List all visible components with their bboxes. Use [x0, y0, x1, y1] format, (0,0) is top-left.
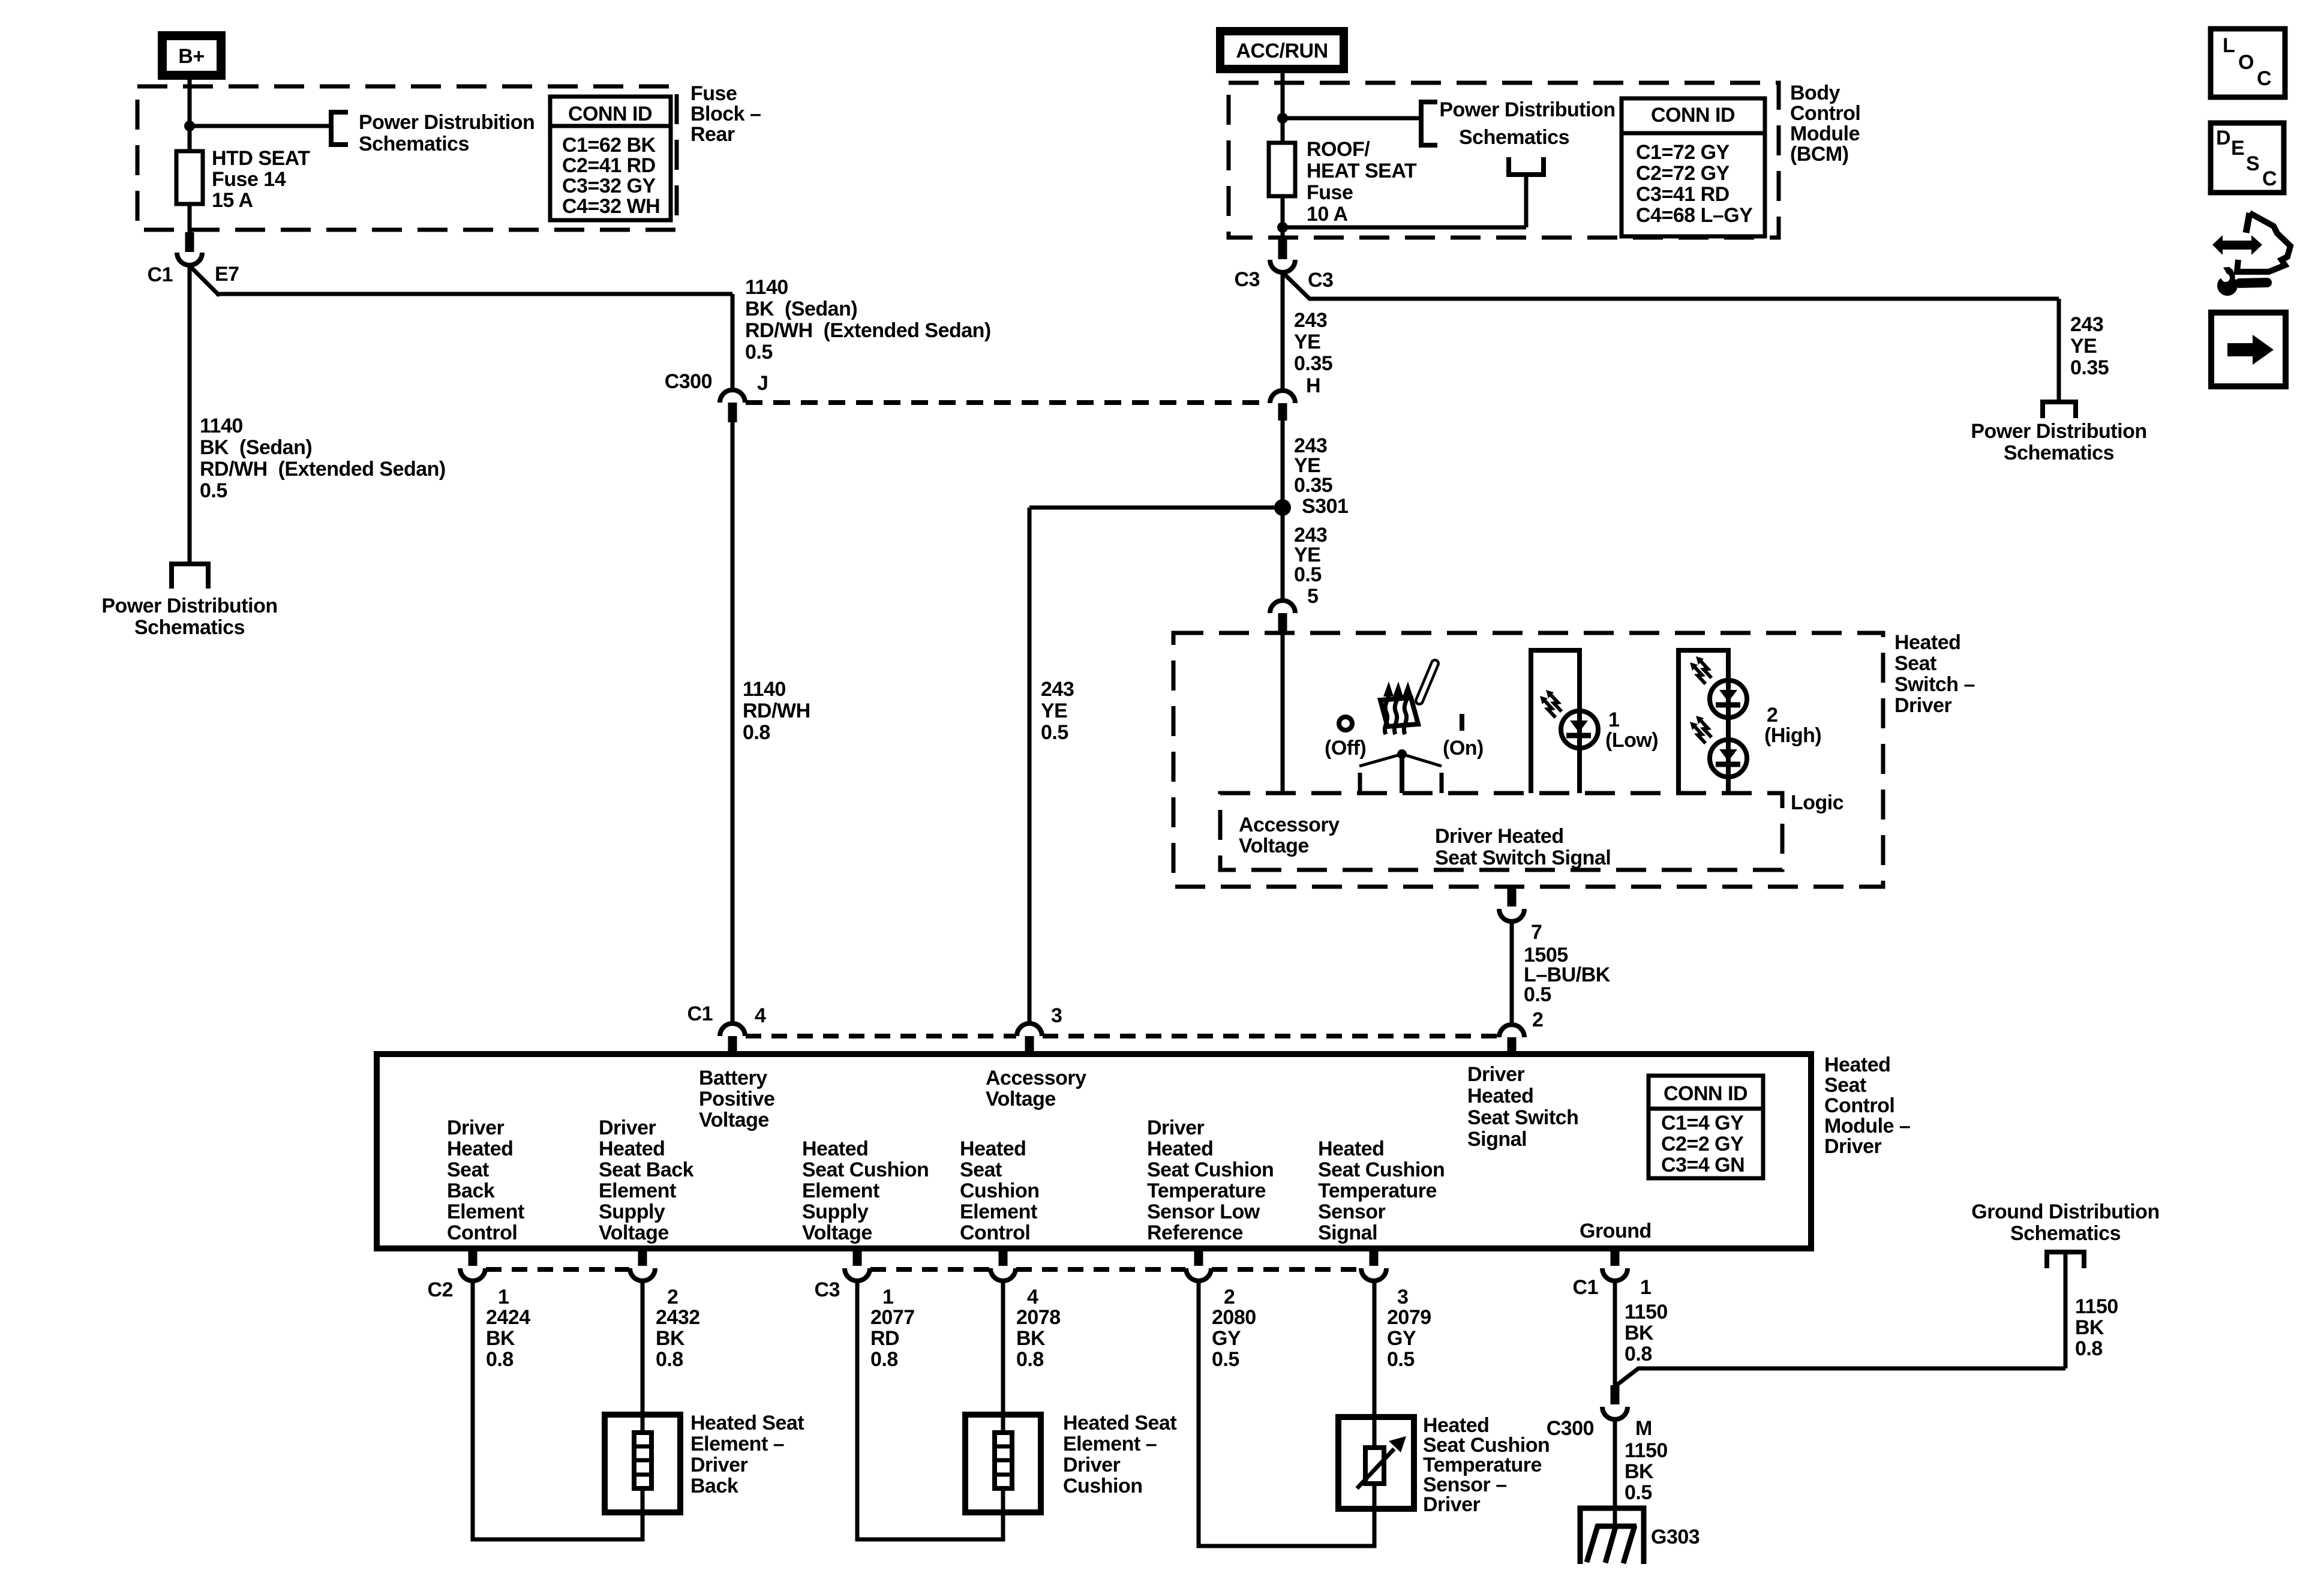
LED 1 loop box [1531, 650, 1580, 793]
svg-text:(Off): (Off) [1325, 737, 1366, 760]
svg-text:Seat Switch Signal: Seat Switch Signal [1435, 846, 1611, 869]
svg-text:C4=32 WH: C4=32 WH [562, 195, 660, 218]
svg-text:Power Distrubition: Power Distrubition [359, 111, 535, 134]
svg-text:0.8: 0.8 [486, 1348, 514, 1371]
heated seat control module box [377, 1054, 1811, 1248]
svg-text:Seat: Seat [960, 1158, 1002, 1181]
svg-text:Seat Switch: Seat Switch [1467, 1106, 1578, 1129]
svg-text:0.5: 0.5 [1041, 721, 1068, 744]
svg-text:2: 2 [1532, 1008, 1543, 1031]
svg-text:BK: BK [2075, 1316, 2104, 1339]
svg-text:1140: 1140 [743, 678, 786, 701]
svg-text:YE: YE [1041, 700, 1067, 722]
svg-text:Element: Element [802, 1179, 879, 1202]
svg-text:Body: Body [1790, 82, 1840, 104]
svg-text:2424: 2424 [486, 1306, 530, 1329]
wire circuit 1140 down to power distribution [188, 266, 192, 564]
svg-text:4: 4 [755, 1004, 766, 1027]
schematic navigation icon (arrow + wrench) [2212, 235, 2262, 255]
dashed link module top pins [746, 1034, 1016, 1038]
dashed connector link C300 J to BCM H [746, 400, 1269, 405]
svg-text:2079: 2079 [1387, 1306, 1431, 1329]
svg-text:Reference: Reference [1147, 1221, 1243, 1244]
svg-text:Driver: Driver [599, 1116, 656, 1139]
svg-text:C3=32 GY: C3=32 GY [562, 175, 656, 197]
svg-text:BK (Sedan): BK (Sedan) [200, 436, 312, 459]
svg-text:Positive: Positive [699, 1088, 774, 1110]
svg-text:1140: 1140 [745, 276, 788, 299]
svg-text:5: 5 [1307, 585, 1318, 608]
svg-text:2: 2 [1767, 704, 1777, 727]
svg-text:G303: G303 [1651, 1526, 1700, 1548]
connector module C1 pin 4 [720, 1023, 745, 1036]
svg-text:GY: GY [1212, 1327, 1241, 1350]
svg-text:HTD SEAT: HTD SEAT [212, 147, 310, 170]
svg-text:Seat Cushion: Seat Cushion [1147, 1158, 1274, 1181]
LED 2 emission arrows lower [1696, 716, 1704, 724]
svg-text:Driver Heated: Driver Heated [1435, 825, 1564, 848]
svg-text:Fuse: Fuse [1307, 181, 1353, 204]
svg-text:CONN ID: CONN ID [568, 103, 652, 125]
wire 243 YE from C3 to H [1281, 272, 1285, 392]
wire 243 YE S301 to switch pin 5 [1281, 514, 1285, 600]
svg-text:Element: Element [447, 1200, 524, 1223]
connector module bottom pin x=1429 [853, 1248, 862, 1266]
svg-text:Voltage: Voltage [802, 1221, 872, 1244]
svg-text:YE: YE [2070, 335, 2097, 358]
svg-text:C4=68 L–GY: C4=68 L–GY [1636, 204, 1753, 227]
svg-text:(On): (On) [1443, 737, 1484, 760]
svg-text:2077: 2077 [870, 1306, 915, 1329]
svg-text:C2=41 RD: C2=41 RD [562, 154, 656, 177]
svg-text:3: 3 [1051, 1004, 1062, 1027]
svg-text:Driver: Driver [447, 1116, 505, 1139]
LED 2 loop box [1679, 650, 1728, 793]
svg-text:Module: Module [1790, 122, 1860, 145]
svg-text:2080: 2080 [1212, 1306, 1256, 1329]
svg-text:2: 2 [667, 1286, 678, 1308]
svg-text:S301: S301 [1302, 495, 1348, 518]
svg-text:Seat Back: Seat Back [599, 1158, 694, 1181]
connector module bottom pin x=1672 [999, 1248, 1008, 1266]
svg-text:C2=72 GY: C2=72 GY [1636, 162, 1730, 185]
wire to power distribution bracket (BCM) [1283, 116, 1421, 121]
node junction on B+ feed [184, 121, 195, 131]
off-page bracket power distribution (fuse block) [331, 112, 348, 145]
svg-text:Element –: Element – [1063, 1433, 1157, 1455]
svg-text:Heated: Heated [802, 1137, 868, 1160]
svg-text:Heated Seat: Heated Seat [1063, 1412, 1176, 1434]
wire B+ to fuse 14 [188, 80, 192, 151]
svg-text:Driver: Driver [1063, 1454, 1121, 1476]
off-page bracket (bottom left) [172, 564, 208, 589]
svg-text:Heated: Heated [1894, 631, 1960, 654]
wire loop cushion element [857, 1280, 1003, 1539]
heated seat element driver back box [605, 1415, 680, 1512]
wire loop back element [473, 1280, 642, 1539]
connector module bottom pin x=1071 [638, 1248, 647, 1266]
svg-text:Seat Cushion: Seat Cushion [802, 1158, 929, 1181]
svg-text:ROOF/: ROOF/ [1307, 138, 1370, 161]
dashed link C3 pins [870, 1267, 990, 1272]
svg-text:Logic: Logic [1791, 791, 1843, 814]
thermistor symbol [1365, 1448, 1384, 1484]
connector module pin 2 [1499, 1025, 1524, 1037]
svg-text:Supply: Supply [599, 1200, 665, 1223]
svg-text:Back: Back [447, 1179, 495, 1202]
svg-text:Driver: Driver [1467, 1063, 1525, 1086]
svg-text:Switch –: Switch – [1894, 673, 1975, 696]
svg-text:1150: 1150 [2075, 1295, 2118, 1318]
connector switch pin 5 [1270, 601, 1295, 613]
svg-text:0.5: 0.5 [200, 479, 227, 502]
svg-text:0.35: 0.35 [1294, 352, 1332, 375]
wrench [2239, 283, 2267, 283]
svg-text:Temperature: Temperature [1318, 1179, 1437, 1202]
svg-text:Cushion: Cushion [960, 1179, 1039, 1202]
connector switch pin 7 [1508, 887, 1517, 906]
svg-text:Block –: Block – [690, 103, 761, 125]
svg-text:15 A: 15 A [212, 189, 253, 212]
svg-text:Heated: Heated [1147, 1137, 1213, 1160]
wire loop temperature sensor [1199, 1280, 1374, 1546]
svg-text:Power Distribution: Power Distribution [1971, 420, 2146, 443]
svg-text:C: C [2257, 67, 2271, 90]
svg-text:Voltage: Voltage [1239, 834, 1309, 857]
wire 243 YE to right power distribution [1283, 272, 1310, 299]
switch contact stubs [1358, 773, 1362, 793]
svg-text:Driver: Driver [1894, 694, 1952, 717]
svg-text:RD: RD [870, 1327, 899, 1350]
wire E7 to C300 J (circuit 1140) [190, 266, 218, 295]
heated seat switch driver dashed box [1173, 633, 1883, 887]
svg-text:CONN ID: CONN ID [1651, 104, 1735, 127]
heated seat cushion temperature sensor box [1338, 1417, 1414, 1509]
svg-text:Sensor: Sensor [1318, 1200, 1386, 1223]
svg-text:Heated: Heated [1824, 1053, 1890, 1076]
connector BCM cavity H [1270, 391, 1295, 403]
wire to power distribution bracket [190, 124, 331, 128]
svg-text:0.8: 0.8 [1625, 1343, 1652, 1365]
svg-text:Signal: Signal [1467, 1128, 1527, 1151]
svg-text:3: 3 [1397, 1286, 1408, 1308]
wire accessory voltage into logic [1281, 633, 1285, 793]
svg-text:1: 1 [498, 1286, 509, 1308]
svg-text:Schematics: Schematics [359, 133, 469, 155]
wire ground pin to junction [1613, 1280, 1617, 1386]
svg-text:C3: C3 [815, 1278, 840, 1301]
svg-text:Fuse 14: Fuse 14 [212, 168, 286, 191]
svg-text:0.5: 0.5 [1387, 1348, 1415, 1371]
svg-text:C3: C3 [1308, 269, 1333, 292]
return bracket from power distribution schematics [1509, 157, 1544, 175]
svg-text:Back: Back [690, 1475, 738, 1497]
svg-text:C3: C3 [1235, 268, 1260, 291]
svg-text:Schematics: Schematics [1459, 126, 1569, 149]
CONN ID table BCM [1622, 98, 1765, 236]
svg-text:GY: GY [1387, 1327, 1416, 1350]
LED 2 lower circle [1710, 740, 1747, 777]
connector C300 cavity J [720, 390, 745, 403]
svg-text:0.5: 0.5 [745, 341, 773, 364]
svg-text:Power Distribution: Power Distribution [101, 595, 277, 617]
BCM dashed box [1229, 83, 1779, 238]
svg-text:Cushion: Cushion [1063, 1475, 1142, 1497]
svg-text:RD/WH (Extended Sedan): RD/WH (Extended Sedan) [745, 319, 991, 342]
svg-text:E: E [2231, 137, 2244, 160]
svg-text:243: 243 [2070, 313, 2103, 336]
svg-text:L: L [2223, 34, 2235, 57]
svg-text:D: D [2216, 127, 2230, 149]
svg-text:10 A: 10 A [1307, 203, 1348, 226]
svg-text:Signal: Signal [1318, 1221, 1377, 1244]
svg-text:(Low): (Low) [1605, 729, 1658, 752]
svg-text:Seat Cushion: Seat Cushion [1318, 1158, 1445, 1181]
svg-text:0.5: 0.5 [1625, 1481, 1652, 1504]
svg-text:0.5: 0.5 [1294, 563, 1322, 586]
svg-text:E7: E7 [215, 263, 239, 286]
svg-text:C: C [2262, 167, 2277, 190]
svg-text:1150: 1150 [1625, 1301, 1668, 1323]
svg-text:Heated: Heated [960, 1137, 1026, 1160]
svg-text:Rear: Rear [690, 123, 735, 146]
node junction fuse output [1277, 222, 1288, 233]
svg-text:BK: BK [656, 1327, 685, 1350]
svg-text:BK: BK [1016, 1327, 1046, 1350]
svg-text:RD/WH: RD/WH [743, 700, 810, 722]
svg-text:HEAT SEAT: HEAT SEAT [1307, 160, 1417, 182]
svg-text:Heated: Heated [1467, 1085, 1533, 1107]
svg-text:Sensor Low: Sensor Low [1147, 1200, 1260, 1223]
wire branch S301 to module pin 3 [1029, 506, 1283, 510]
LED 1 circle [1561, 711, 1598, 748]
ground G303 [1580, 1508, 1644, 1564]
svg-text:Element: Element [599, 1179, 676, 1202]
svg-text:Driver: Driver [1423, 1493, 1481, 1516]
off-page bracket power distribution (BCM) [1421, 102, 1437, 145]
svg-text:Accessory: Accessory [986, 1067, 1086, 1089]
svg-text:Voltage: Voltage [986, 1088, 1056, 1110]
svg-text:4: 4 [1027, 1286, 1038, 1308]
svg-text:C300: C300 [665, 370, 712, 393]
svg-text:ACC/RUN: ACC/RUN [1236, 40, 1328, 62]
heated seat icon: seat back [1419, 664, 1435, 701]
heated seat element driver cushion box [965, 1415, 1041, 1512]
svg-text:Seat: Seat [1824, 1074, 1866, 1097]
svg-text:H: H [1306, 374, 1320, 397]
connector module bottom pin x=2290 [1370, 1248, 1379, 1266]
wire ACC/RUN to fuse [1281, 73, 1285, 143]
svg-text:Seat: Seat [447, 1158, 489, 1181]
svg-text:(BCM): (BCM) [1790, 143, 1849, 166]
svg-text:1: 1 [1640, 1276, 1651, 1299]
svg-text:1150: 1150 [1625, 1439, 1668, 1462]
svg-text:Element –: Element – [690, 1433, 784, 1455]
svg-text:(High): (High) [1764, 724, 1821, 747]
svg-text:Power Distribution: Power Distribution [1439, 98, 1615, 121]
svg-text:1: 1 [882, 1286, 893, 1308]
svg-text:0.35: 0.35 [1294, 474, 1332, 497]
svg-text:Schematics: Schematics [134, 616, 245, 639]
svg-text:Schematics: Schematics [2010, 1222, 2121, 1245]
svg-text:0.8: 0.8 [2075, 1337, 2103, 1360]
svg-text:Driver: Driver [1824, 1135, 1882, 1158]
svg-text:Heated: Heated [1318, 1137, 1384, 1160]
svg-text:C1=4 GY: C1=4 GY [1661, 1112, 1744, 1134]
svg-text:BK: BK [1625, 1322, 1654, 1344]
svg-text:C300: C300 [1547, 1417, 1594, 1440]
off-page bracket (right power distribution) [2043, 402, 2076, 418]
wire 1505 L-BU/BK to module pin 2 [1510, 921, 1514, 1025]
connector C3 (BCM output) [1278, 239, 1287, 259]
logic dashed box [1220, 793, 1782, 870]
ground distribution branch [1615, 1368, 1638, 1386]
switch pivot and wiper [1397, 749, 1407, 759]
heated seat icon: cushion [1380, 698, 1418, 727]
svg-text:Voltage: Voltage [599, 1221, 669, 1244]
arrow icon [2211, 313, 2286, 386]
svg-text:C3=41 RD: C3=41 RD [1636, 183, 1730, 206]
svg-text:Accessory: Accessory [1239, 813, 1340, 836]
svg-text:0.35: 0.35 [2070, 356, 2109, 379]
svg-text:C2: C2 [428, 1278, 453, 1301]
svg-text:0.5: 0.5 [1524, 983, 1551, 1006]
svg-text:Ground Distribution: Ground Distribution [1971, 1200, 2159, 1223]
node junction ACC feed [1277, 113, 1288, 124]
LED 2 upper circle [1710, 680, 1747, 718]
svg-text:0.8: 0.8 [1016, 1348, 1044, 1371]
svg-text:Voltage: Voltage [699, 1109, 769, 1131]
element symbol [634, 1433, 651, 1488]
svg-text:Ground: Ground [1580, 1220, 1652, 1242]
wire 1140 RD/WH to module pin C1-4 [731, 422, 735, 1025]
svg-text:0.5: 0.5 [1212, 1348, 1239, 1371]
svg-text:0.8: 0.8 [870, 1348, 898, 1371]
wire 243 YE H to S301 [1281, 421, 1285, 501]
svg-text:O: O [2238, 51, 2254, 74]
heated seat icon: heat wave arrows [1385, 695, 1388, 734]
svg-text:Schematics: Schematics [2004, 442, 2114, 464]
svg-text:Element: Element [960, 1200, 1037, 1223]
wire fuse 14 to connector C1 [188, 204, 192, 237]
svg-text:1140: 1140 [200, 415, 243, 437]
svg-text:C3=4 GN: C3=4 GN [1661, 1154, 1744, 1176]
svg-text:C2=2 GY: C2=2 GY [1661, 1133, 1744, 1155]
svg-text:B+: B+ [178, 45, 204, 68]
fuse ROOF/HEAT SEAT 10A [1269, 143, 1295, 196]
CONN ID table fuse block rear [550, 97, 671, 220]
connector module pin 3 [1017, 1023, 1042, 1036]
svg-text:Heated: Heated [599, 1137, 665, 1160]
fuse block dashed box [137, 86, 677, 230]
svg-text:C1=72 GY: C1=72 GY [1636, 141, 1730, 164]
dashed link C2 pins [486, 1267, 629, 1272]
svg-text:Temperature: Temperature [1147, 1179, 1266, 1202]
svg-text:Control: Control [447, 1221, 517, 1244]
LOC icon [2211, 29, 2285, 97]
svg-text:C1=62 BK: C1=62 BK [562, 134, 656, 157]
splice S301 [1274, 499, 1291, 516]
svg-text:Battery: Battery [699, 1067, 767, 1089]
svg-text:C1: C1 [687, 1002, 713, 1025]
LED 2 emission arrows upper [1696, 656, 1704, 665]
LED 1 emission arrows [1546, 690, 1554, 698]
connector module bottom pin x=2692 [1611, 1248, 1620, 1266]
svg-text:BK (Sedan): BK (Sedan) [745, 298, 857, 320]
wire fuse to box edge [1281, 196, 1285, 244]
power feed B+ box [158, 31, 226, 80]
svg-text:M: M [1635, 1417, 1652, 1440]
DESC icon [2211, 123, 2284, 193]
svg-text:243: 243 [1294, 309, 1327, 332]
svg-text:Seat: Seat [1894, 652, 1936, 675]
svg-text:2: 2 [1224, 1286, 1235, 1308]
svg-text:Heated: Heated [447, 1137, 513, 1160]
svg-text:BK: BK [1625, 1460, 1654, 1483]
connector module bottom pin x=1998 [1194, 1248, 1203, 1266]
svg-text:Fuse: Fuse [690, 82, 737, 105]
svg-text:2432: 2432 [656, 1306, 700, 1329]
svg-text:C1: C1 [1573, 1276, 1598, 1299]
connector C1 / E7 (fuse block output) [185, 232, 194, 252]
svg-text:C1: C1 [148, 263, 173, 286]
wire 1150 BK to G303 [1613, 1419, 1617, 1526]
svg-text:7: 7 [1531, 921, 1542, 944]
svg-text:2078: 2078 [1016, 1306, 1061, 1329]
svg-text:Supply: Supply [802, 1200, 869, 1223]
svg-text:1: 1 [1608, 709, 1619, 731]
svg-text:0.8: 0.8 [743, 721, 770, 744]
svg-text:BK: BK [486, 1327, 515, 1350]
svg-text:Control: Control [1790, 102, 1860, 125]
svg-text:0.8: 0.8 [656, 1348, 683, 1371]
svg-text:Heated Seat: Heated Seat [690, 1412, 804, 1434]
svg-text:RD/WH (Extended Sedan): RD/WH (Extended Sedan) [200, 458, 446, 481]
LED 1 diode [1570, 721, 1588, 733]
svg-text:243: 243 [1041, 678, 1074, 701]
CONN ID table module [1649, 1076, 1763, 1178]
connector module bottom pin x=788 [469, 1248, 478, 1266]
svg-text:Control: Control [960, 1221, 1030, 1244]
power feed ACC/RUN box [1216, 27, 1348, 73]
switch on position bar [1460, 714, 1464, 731]
svg-text:YE: YE [1294, 331, 1320, 353]
svg-text:CONN ID: CONN ID [1664, 1082, 1747, 1105]
svg-text:Control: Control [1824, 1094, 1894, 1117]
connector C300 cavity M [1611, 1385, 1620, 1404]
svg-text:Module –: Module – [1824, 1115, 1910, 1137]
element symbol [995, 1433, 1012, 1488]
svg-text:Driver: Driver [1147, 1116, 1205, 1139]
switch off position circle [1339, 717, 1352, 730]
svg-text:J: J [757, 372, 768, 395]
svg-text:Driver: Driver [690, 1454, 748, 1476]
off-page bracket ground distribution [2047, 1252, 2084, 1268]
svg-text:S: S [2246, 152, 2259, 175]
fuse F14 HTD SEAT 15A [176, 151, 203, 204]
